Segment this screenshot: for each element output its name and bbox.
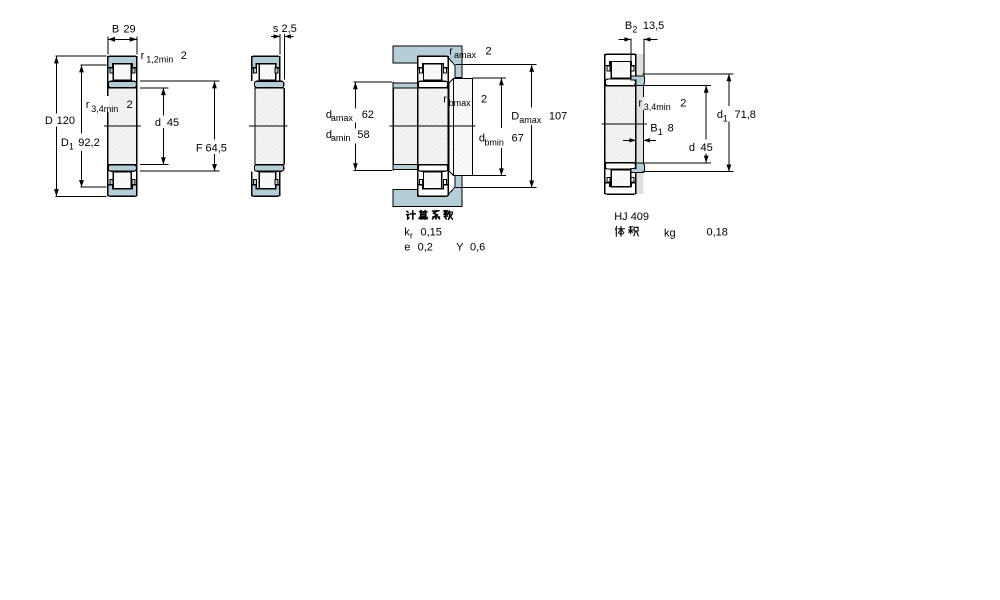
svg-text:13,5: 13,5 [643,20,664,32]
fig2 centerline [249,125,288,127]
svg-text:2: 2 [632,25,637,35]
fig3 shaft shoulder bottom [393,164,418,169]
svg-text:r: r [410,230,413,240]
fig3 dim d_a [354,81,392,83]
fig2 outer left wall top [251,56,253,81]
fig1 dim d 45 [140,87,169,89]
fig3 bearing right wall [447,56,449,196]
fig4 left wall [604,54,606,194]
svg-text:107: 107 [549,111,567,123]
fig1 dim D 120 [56,55,107,57]
fig4 dim B1 8 [623,139,636,141]
fig1 bearing roller [113,172,131,189]
fig3 abutment collar [449,78,473,175]
svg-text:bmax: bmax [449,98,472,108]
svg-text:58: 58 [357,129,369,141]
svg-text:67: 67 [512,133,524,145]
fig4 bearing (unshaded) cage right [631,177,634,182]
fig4 bearing (unshaded) bore line [605,161,636,163]
fig4 bearing (unshaded) outer ring [605,183,636,194]
fig3 bearing (unshaded) outer ring [418,185,448,196]
fig3 bearing (unshaded) inner ring [418,165,447,171]
svg-text:3,4min: 3,4min [644,102,671,112]
svg-text:120: 120 [57,115,75,127]
fig3 housing bottom (with shoulder) [393,175,462,207]
fig3 bearing (unshaded) cage left [420,68,423,73]
svg-text:HJ 409: HJ 409 [614,211,649,223]
fig2 cage left [254,68,257,73]
svg-text:0,2: 0,2 [418,241,433,253]
fig2 cage right [275,68,278,73]
fig3 bearing (unshaded) roller [424,64,442,81]
fig1 bearing cage left [110,68,113,73]
fig1 bearing cage right [132,68,135,73]
fig1 bearing cage right [132,179,135,184]
fig4 dim B2 13,5 [630,39,632,62]
svg-text:2: 2 [481,94,487,106]
svg-text:d: d [689,142,695,154]
svg-text:2,5: 2,5 [282,23,297,35]
svg-text:e: e [404,241,410,253]
fig2 outer left wall bottom [251,171,253,196]
fig2 outer ring [252,56,280,67]
fig1 right wall [136,56,138,196]
svg-text:2: 2 [127,99,133,111]
svg-text:0,18: 0,18 [707,226,728,238]
svg-text:bmin: bmin [484,137,504,147]
fig4 bearing (unshaded) roller [611,62,631,79]
fig1 dim B 29 [107,37,109,55]
fig2 outer ring [252,185,280,196]
fig4 right wall [635,54,637,194]
fig3 shaft left face [392,82,394,171]
fig2 roller [259,64,276,81]
fig3 bearing (unshaded) inner ring [418,81,447,87]
svg-text:r: r [449,45,453,57]
svg-text:92,2: 92,2 [78,137,99,149]
fig1 centerline [104,125,141,127]
fig3 collar step line [453,78,455,175]
svg-text:D: D [511,111,519,123]
fig4 adjacent component (grey) [636,54,643,194]
fig1 bearing inner ring [108,165,136,171]
svg-text:71,8: 71,8 [735,109,756,121]
fig3 bearing left wall [417,56,419,196]
svg-text:Y: Y [456,241,464,253]
svg-text:kg: kg [664,228,676,240]
fig2 cage left [254,179,257,184]
fig3 dim D_a 107 [456,64,537,66]
svg-text:2: 2 [181,50,187,62]
fig3 shaft surface bottom [393,163,453,165]
svg-text:D: D [61,137,69,149]
fig2 inner ring (shifted) [254,81,283,87]
svg-text:0,6: 0,6 [470,241,485,253]
fig1 bearing bore line [108,87,137,89]
fig3 shaft body [393,89,418,164]
fig1 bearing outer ring [108,185,137,196]
fig2 bore line [255,164,284,166]
fig2 cage right [275,179,278,184]
svg-text:45: 45 [167,117,179,129]
fig2 outer right wall bottom [279,171,281,196]
fig2 dim s 2,5 [279,34,281,55]
fig4 HJ ring bottom section [631,163,644,173]
svg-text:r: r [86,99,90,111]
svg-text:45: 45 [701,142,713,154]
fig4 bearing (unshaded) outer ring [605,54,636,65]
fig3 centerline [390,125,476,127]
fig3 bearing (unshaded) roller [424,172,442,189]
svg-text:2: 2 [486,45,492,57]
fig4 bearing (unshaded) cage left [607,177,610,182]
svg-text:1: 1 [723,113,728,123]
fig4 bearing (unshaded) inner ring [605,79,635,85]
fig4 dim d1 71,8 [642,73,733,75]
fig4 centerline [602,123,648,125]
fig3 shaft shoulder top [393,83,418,88]
fig2 outer right wall top [279,56,281,81]
svg-text:8: 8 [668,123,674,135]
fig4 bearing (unshaded) inner ring [605,163,635,169]
fig4 HJ sleeve right edge upper [642,86,644,97]
svg-text:2: 2 [680,97,686,109]
svg-text:F: F [196,143,203,155]
fig1 bearing inner ring [108,81,136,87]
fig3 bearing (unshaded) [418,88,447,164]
fig3 housing top (with shoulder) [393,46,462,78]
fig1 left wall lower [107,112,109,196]
fig2 roller [259,172,276,189]
fig3 bearing (unshaded) cage right [443,179,446,184]
svg-text:s: s [273,23,279,35]
fig4 bearing (unshaded) bore line [605,85,636,87]
fig1 bearing cage left [110,179,113,184]
fig4 dim d 45 [642,85,711,87]
fig4 label (Chinese): mass [616,226,625,236]
fig3 bearing (unshaded) outer ring [418,56,448,67]
fig1 dim D1 92,2 [80,64,106,66]
svg-text:29: 29 [123,24,135,36]
svg-text:1,2min: 1,2min [146,55,173,65]
svg-text:amin: amin [331,133,351,143]
fig3 dim d_b 67 [473,77,507,79]
svg-text:B: B [650,123,657,135]
fig2 inner ring (shifted) [254,165,283,171]
svg-text:r: r [443,94,447,106]
svg-text:1: 1 [658,127,663,137]
fig4 bearing (unshaded) cage right [631,66,634,71]
fig1 bearing bore line [108,164,137,166]
fig3 caption (Chinese): calculation factors [407,211,416,220]
svg-text:amax: amax [331,113,354,123]
fig1 bearing outer ring [108,56,137,67]
svg-text:r: r [141,50,145,62]
fig2 bore line [255,87,284,89]
fig3 bearing (unshaded) cage left [420,179,423,184]
svg-text:1: 1 [69,142,74,152]
svg-text:r: r [638,97,642,109]
svg-text:d: d [155,117,161,129]
fig4 HJ sleeve right edge lower [642,110,644,163]
fig1 bearing [109,88,137,164]
fig4 bearing (unshaded) roller [611,170,631,187]
svg-text:amax: amax [519,115,542,125]
fig3 bearing (unshaded) bore line [418,164,448,166]
fig3 bearing (unshaded) bore line [418,87,448,89]
fig1 bearing roller [113,64,131,81]
svg-text:64,5: 64,5 [206,143,227,155]
svg-text:3,4min: 3,4min [91,104,118,114]
fig4 bearing (unshaded) [606,86,636,162]
svg-text:B: B [625,20,632,32]
svg-text:0,15: 0,15 [421,227,442,239]
svg-text:B: B [112,24,119,36]
svg-text:D: D [45,115,53,127]
fig4 bearing (unshaded) cage left [607,66,610,71]
fig3 shaft surface top [393,87,453,89]
fig3 bearing (unshaded) cage right [443,68,446,73]
figure 2: side view with axial displacement s [255,88,284,164]
fig2 bore left edge [254,88,256,164]
fig1 left wall upper [107,56,109,96]
fig1 dim F 64,5 [140,80,220,82]
svg-text:62: 62 [362,109,374,121]
svg-text:amax: amax [454,50,477,60]
fig4 HJ ring top section [631,76,644,86]
fig2 bore right edge [283,88,285,164]
